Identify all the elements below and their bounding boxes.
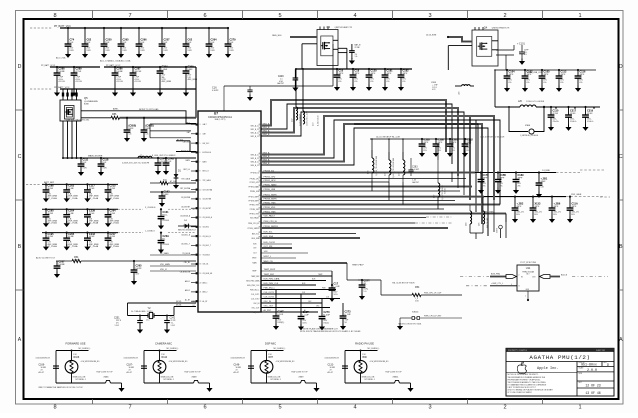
column ticks top	[92, 11, 94, 20]
svg-text:BUS_PMU_DATA: BUS_PMU_DATA	[264, 278, 280, 281]
svg-text:ANLL2: ANLL2	[185, 289, 190, 292]
capacitor C18	[352, 68, 354, 70]
wire corner connectors right-bottom	[451, 172, 453, 182]
capacitor C74	[67, 27, 69, 29]
capacitor C257	[161, 27, 163, 29]
capacitor C182	[400, 68, 402, 70]
svg-text:1UF: 1UF	[210, 42, 215, 44]
svg-text:X06T: X06T	[497, 227, 499, 233]
svg-text:1UF: 1UF	[163, 42, 168, 44]
wire drop to row1 bus	[499, 197, 501, 205]
svg-text:J0PF: J0PF	[516, 206, 522, 208]
svg-text:1UF: 1UF	[102, 162, 107, 164]
title block legal paragraph	[506, 372, 577, 374]
svg-text:J0PF: J0PF	[579, 74, 585, 76]
svg-text:MAIN_ON: MAIN_ON	[264, 260, 274, 263]
svg-text:TEMP: TEMP	[318, 274, 322, 276]
svg-text:VDD_IO: VDD_IO	[160, 269, 168, 271]
svg-text:1.5-R: 1.5-R	[171, 325, 176, 327]
svg-text:J0 NF: J0 NF	[89, 188, 95, 190]
svg-text:R106: R106	[74, 356, 80, 359]
svg-text:X5R: X5R	[102, 168, 107, 170]
svg-text:4T_J%4A: 4T_J%4A	[47, 197, 57, 200]
svg-text:TEMP_FB2: TEMP_FB2	[264, 274, 275, 276]
svg-text:1UF: 1UF	[105, 42, 110, 44]
svg-text:BUS_CLK32: BUS_CLK32	[264, 242, 276, 244]
svg-text:4NF_BNB: 4NF_BNB	[161, 81, 171, 83]
svg-text:PP1R0_VDD: PP1R0_VDD	[250, 209, 260, 211]
net PP5R0 bus from Q3	[295, 68, 412, 70]
svg-text:J%4.6-: J%4.6-	[552, 121, 559, 123]
mic block ground	[121, 386, 123, 389]
svg-text:R%: R%	[423, 150, 427, 152]
svg-text:1: 1	[578, 13, 581, 19]
svg-text:PP3R0_TRIS: PP3R0_TRIS	[249, 204, 260, 206]
svg-text:GA0TET: GA0TET	[277, 82, 285, 85]
second bus segment left	[50, 66, 100, 68]
svg-text:PP1R1_SMPS: PP1R1_SMPS	[249, 196, 261, 198]
svg-text:X5(1): X5(1)	[323, 322, 329, 324]
svg-text:BUS_SCL: BUS_SCL	[252, 233, 260, 235]
inductor L24	[469, 205, 471, 211]
svg-text:100NF: 100NF	[58, 71, 65, 73]
svg-text:MC_SGNDK_L: MC_SGNDK_L	[368, 348, 380, 350]
svg-text:CLK_OUT1: CLK_OUT1	[251, 294, 260, 296]
svg-text:CB_BGC: CB_BGC	[203, 227, 210, 229]
svg-text:CB_BGTBT: CB_BGTBT	[203, 208, 211, 210]
svg-text:B0BB: B0BB	[84, 104, 89, 106]
capacitor C12 BAT_B	[351, 44, 353, 51]
right cap row1 bus	[475, 172, 556, 174]
svg-text:BBT_LG: BBT_LG	[184, 169, 191, 171]
inductor L17	[437, 160, 439, 183]
svg-text:U7: U7	[214, 111, 218, 115]
svg-text:SW4_B_CU: SW4_B_CU	[250, 165, 260, 167]
svg-text:VDD_MAIN: VDD_MAIN	[160, 263, 170, 266]
capacitor C17	[331, 271, 333, 285]
svg-text:B0B (1 OF 2): B0B (1 OF 2)	[215, 119, 226, 121]
svg-text:CLK_OUT2: CLK_OUT2	[251, 298, 260, 300]
Apple logo	[517, 362, 526, 374]
svg-text:MT2 FB2B-L 5: MT2 FB2B-L 5	[365, 379, 375, 381]
capacitor C286	[114, 66, 116, 68]
net bus into Q5	[30, 88, 52, 90]
svg-text:X369: X369	[299, 377, 305, 379]
svg-text:1.8_BNB: 1.8_BNB	[542, 170, 550, 172]
capacitor C161	[160, 208, 162, 210]
svg-text:0.001/0603/X5R/6.3V: 0.001/0603/X5R/6.3V	[36, 358, 50, 360]
wire bundle U7 lower right	[261, 243, 292, 245]
capacitor C239	[86, 208, 88, 210]
capacitor C317	[567, 106, 569, 108]
capacitor C289	[73, 66, 75, 68]
svg-text:X5R: X5R	[140, 50, 145, 52]
svg-text:CB_BGTBT: CB_BGTBT	[181, 206, 190, 208]
svg-text:17: 17	[200, 254, 202, 256]
svg-text:0.30PF: 0.30PF	[212, 90, 219, 92]
capacitor 0.292	[464, 138, 466, 140]
svg-text:B: B	[619, 244, 623, 250]
wire long top band 2	[354, 120, 500, 205]
net PP_BATT dashed feed	[26, 183, 40, 185]
svg-text:J0 NF: J0 NF	[109, 188, 115, 190]
svg-text:PP1R8_IO2: PP1R8_IO2	[251, 172, 260, 174]
svg-text:0%: 0%	[560, 82, 563, 84]
svg-text:1UF: 1UF	[140, 42, 145, 44]
capacitor C120	[368, 68, 370, 70]
svg-text:1_CUGBLG: 1_CUGBLG	[145, 230, 155, 232]
svg-text:OSC_IN: OSC_IN	[253, 303, 260, 305]
cap-grid bus row 2	[42, 208, 118, 210]
svg-text:1.0NF: 1.0NF	[161, 69, 168, 71]
svg-text:2.2UH-LG-TL-LGE BNB: 2.2UH-LG-TL-LGE BNB	[526, 101, 545, 103]
svg-text:PP3R0_USB: PP3R0_USB	[264, 189, 276, 191]
svg-text:4T_J%4A: 4T_J%4A	[89, 245, 99, 248]
svg-text:SHT: SHT	[579, 382, 582, 384]
svg-text:+1/W_MICROPHONE_NO: +1/W_MICROPHONE_NO	[370, 361, 390, 363]
svg-text:J0PF: J0PF	[451, 142, 457, 144]
wire verticals inductor cluster connections	[371, 139, 373, 158]
svg-text:0%: 0%	[354, 81, 357, 83]
svg-text:BUS: BUS	[302, 283, 305, 285]
svg-text:BUS_PMU_CLK: BUS_PMU_CLK	[264, 283, 279, 285]
svg-text:PP3R1_TRIS: PP3R1_TRIS	[249, 213, 260, 215]
svg-text:OSC_OUT: OSC_OUT	[264, 306, 274, 308]
inductor L25	[482, 205, 484, 211]
svg-text:41.2-B: 41.2-B	[58, 81, 65, 83]
svg-text:A%-3T: A%-3T	[328, 371, 334, 374]
svg-text:J0PF: J0PF	[526, 74, 532, 76]
svg-text:ADJ_C74A ADJ_C82A ADJ_C50A: ADJ_C74A ADJ_C82A ADJ_C50A	[100, 60, 131, 63]
net OSC wires to U7	[128, 302, 197, 304]
Q4 output wires	[496, 49, 514, 51]
svg-text:X5R: X5R	[86, 50, 91, 52]
svg-text:AVBE_: AVBE_	[113, 108, 120, 111]
svg-text:4T_J%4A: 4T_J%4A	[47, 222, 57, 225]
svg-text:J0NF: J0NF	[540, 181, 546, 183]
inductor L10	[462, 85, 471, 86]
second bus segment mid	[104, 66, 196, 68]
inductor L14	[372, 158, 374, 173]
U7 left pin stubs	[191, 124, 198, 126]
svg-text:4T_J%4A: 4T_J%4A	[109, 197, 119, 200]
svg-text:B1.6-: B1.6-	[162, 215, 167, 217]
svg-text:J0PF: J0PF	[560, 74, 566, 76]
svg-text:SW3_A: SW3_A	[263, 152, 270, 155]
capacitor C299	[185, 66, 187, 68]
svg-text:MT2 FB2B-L 5: MT2 FB2B-L 5	[164, 379, 174, 381]
svg-text:1UF: 1UF	[167, 161, 172, 163]
svg-text:47 NF: 47 NF	[75, 71, 82, 73]
svg-text:OUT: OUT	[253, 248, 256, 250]
svg-text:B: B	[18, 244, 22, 250]
svg-text:8: 8	[53, 13, 56, 19]
svg-text:X3614: X3614	[412, 311, 419, 313]
svg-text:1202_GBLB: 1202_GBLB	[571, 194, 582, 196]
capacitor C98T	[300, 313, 302, 317]
svg-text:2: 2	[503, 405, 506, 411]
inductor L13	[303, 111, 305, 124]
mic block ground	[209, 386, 211, 389]
svg-text:U11: U11	[526, 266, 531, 270]
svg-text:TB_BGLB: TB_BGLB	[203, 254, 210, 256]
U11 ground	[527, 291, 529, 299]
svg-text:MT2 FB2B-L 5: MT2 FB2B-L 5	[76, 379, 86, 381]
svg-text:B90: B90	[363, 356, 368, 359]
svg-text:12 OF 23: 12 OF 23	[585, 384, 600, 388]
capacitor C11A	[569, 196, 571, 198]
capacitor C202	[66, 183, 68, 185]
svg-text:X_CUGBLGL: X_CUGBLGL	[145, 207, 156, 209]
svg-text:12: 12	[200, 208, 202, 210]
svg-text:PP1R2_CPU: PP1R2_CPU	[250, 178, 260, 180]
svg-text:SW4_A: SW4_A	[263, 159, 270, 162]
capacitor C1B5	[497, 171, 499, 173]
capacitor C117	[86, 183, 88, 185]
capacitor C265b	[133, 260, 135, 262]
svg-text:(BCM): (BCM)	[176, 304, 182, 306]
svg-text:X068: X068	[192, 377, 198, 379]
svg-text:I REF TO MEAN THE SAMPLES OF: I REF TO MEAN THE SAMPLES OF SC BU CU-TU…	[38, 386, 83, 389]
mic block wires	[144, 350, 177, 352]
wire bundle staircase U7 to top-right	[261, 100, 446, 152]
svg-text:14-5.10 NTUBTJF WL_CUR: 14-5.10 NTUBTJF WL_CUR	[376, 137, 400, 139]
svg-text:X5R: X5R	[122, 50, 127, 52]
svg-text:OSC_IN: OSC_IN	[264, 301, 272, 303]
svg-text:ITEM_CPU_KL: ITEM_CPU_KL	[264, 221, 279, 223]
svg-text:J0PF: J0PF	[423, 142, 429, 144]
svg-text:J0PF: J0PF	[402, 73, 408, 75]
svg-text:0.001/0603/X5R/6.3V: 0.001/0603/X5R/6.3V	[124, 358, 138, 360]
svg-text:CB_BGL_B: CB_BGL_B	[203, 236, 211, 238]
svg-text:J0PF: J0PF	[482, 178, 488, 180]
svg-text:J0 NF: J0 NF	[109, 213, 115, 215]
svg-text:BU2_B: BU2_B	[561, 274, 568, 276]
capacitor C66B small	[143, 117, 145, 119]
svg-text:1.6-: 1.6-	[355, 56, 358, 58]
svg-text:PP3R0_NAND: PP3R0_NAND	[264, 184, 278, 187]
mic block wires	[345, 350, 378, 352]
svg-text:RADIO PA USE: RADIO PA USE	[355, 341, 374, 345]
net dash row2 to IC	[118, 208, 143, 210]
wire AT_B0L to U7 pin	[176, 151, 196, 153]
capacitor C162	[150, 191, 196, 193]
svg-text:BUS_PMU_CLK: BUS_PMU_CLK	[247, 285, 260, 287]
svg-text:J2 NF: J2 NF	[570, 113, 576, 115]
capacitor 0.281	[538, 171, 540, 173]
capacitor C207	[56, 260, 68, 262]
svg-text:+1/W_MICROPHONE_NO: +1/W_MICROPHONE_NO	[169, 361, 189, 363]
svg-text:PMU_IRQ_L: PMU_IRQ_L	[250, 289, 259, 291]
wire drops to bottom caps	[275, 290, 277, 314]
svg-text:1.B: 1.B	[540, 187, 544, 189]
svg-text:J0 NF: J0 NF	[68, 213, 74, 215]
capacitor C62	[185, 27, 187, 29]
capacitor C264	[208, 27, 210, 29]
svg-text:J0PF: J0PF	[534, 206, 540, 208]
net dash row3 to IC	[118, 232, 143, 234]
svg-text:A%-3T: A%-3T	[127, 371, 133, 374]
svg-text:PP1R0_SMPS3: PP1R0_SMPS3	[248, 228, 260, 230]
svg-text:7: 7	[128, 13, 131, 19]
svg-text:J0PF: J0PF	[354, 73, 360, 75]
capacitor C111	[80, 157, 82, 159]
svg-text:1UF: 1UF	[86, 42, 91, 44]
title text AGATHA PMU	[506, 350, 614, 352]
svg-text:AGATHA PMU(1/2): AGATHA PMU(1/2)	[529, 354, 590, 361]
svg-text:PP1R2_GPU: PP1R2_GPU	[250, 182, 260, 184]
mid cap row bus	[370, 138, 470, 140]
svg-text:B1.: B1.	[162, 239, 166, 241]
svg-text:X3615: X3615	[445, 187, 447, 194]
svg-text:J0PF: J0PF	[571, 206, 577, 208]
svg-text:SW3_B: SW3_B	[263, 156, 270, 158]
svg-text:A_0UF: A_0UF	[323, 314, 330, 317]
svg-text:TB_BGLB: TB_BGLB	[182, 253, 190, 255]
svg-text:BBT_LG: BBT_LG	[203, 171, 210, 173]
svg-text:NOTE: ROUTE TRACES BEFORE LAY: NOTE: ROUTE TRACES BEFORE LAY UR PLS TS …	[300, 330, 361, 333]
svg-text:ADJ_C74A: ADJ_C74A	[56, 57, 66, 60]
transistor Q3	[317, 30, 338, 66]
capacitor C82	[84, 27, 86, 29]
capacitor C243	[86, 232, 88, 234]
capacitor C118	[100, 157, 102, 159]
svg-text:B%: B%	[553, 214, 556, 216]
svg-text:PP1R8_SMPS: PP1R8_SMPS	[249, 200, 261, 202]
svg-text:LOW_BGL_NBLGR/TB_GBL: LOW_BGL_NBLGR/TB_GBL	[66, 120, 89, 122]
capacitor C319	[584, 106, 586, 108]
svg-text:10: 10	[200, 189, 202, 191]
svg-text:PDN_CPU_LF_CUF: PDN_CPU_LF_CUF	[424, 293, 442, 295]
svg-text:4: 4	[353, 13, 356, 19]
svg-text:4.23: 4.23	[432, 89, 435, 91]
svg-text:J0 NF: J0 NF	[68, 236, 74, 238]
capacitor C287	[132, 66, 134, 68]
row ticks right	[619, 109, 624, 111]
capacitor C190	[45, 208, 47, 210]
wire drops from mid bundle	[487, 196, 489, 237]
svg-text:8: 8	[53, 405, 56, 411]
svg-text:16: 16	[200, 245, 202, 247]
svg-text:10NF: 10NF	[187, 69, 193, 71]
svg-text:GAT: GAT	[187, 131, 190, 134]
svg-text:5: 5	[278, 13, 281, 19]
svg-text:BUS: BUS	[312, 279, 315, 281]
svg-text:1_0UH_LNTLL_LGND: 1_0UH_LNTLL_LGND	[307, 110, 309, 126]
svg-text:1UF: 1UF	[122, 42, 127, 44]
svg-text:VDD_FAULT: VDD_FAULT	[264, 215, 276, 218]
svg-text:J0PF: J0PF	[370, 73, 376, 75]
svg-text:R110: R110	[162, 356, 168, 359]
svg-text:BUS_SCL: BUS_SCL	[264, 232, 274, 234]
net PP_BATT_VCC top bus	[30, 27, 52, 29]
svg-text:CLK_OUT2: CLK_OUT2	[264, 297, 275, 299]
capacitor C217	[107, 232, 109, 234]
svg-text:0.1UF: 0.1UF	[277, 314, 284, 316]
svg-text:X5R: X5R	[163, 50, 168, 52]
op-amp U7 main PMU IC body	[198, 111, 261, 312]
U7 left top wires	[150, 123, 191, 125]
capacitor C195	[45, 232, 47, 234]
wire long top band 3	[354, 124, 478, 173]
capacitor 0.291	[449, 138, 451, 140]
svg-text:PP3R1_TRIS: PP3R1_TRIS	[264, 212, 277, 214]
net dashes to U11	[460, 276, 489, 278]
svg-text:C: C	[619, 154, 623, 160]
capacitor 0.285	[421, 138, 423, 140]
svg-text:C: C	[18, 154, 22, 160]
svg-text:SW2_A: SW2_A	[263, 130, 270, 133]
svg-text:0%: 0%	[402, 81, 405, 83]
column ticks bottom	[92, 399, 94, 404]
svg-text:X5R: X5R	[187, 50, 192, 52]
capacitor C204	[66, 208, 68, 210]
svg-text:X360: X360	[525, 125, 531, 127]
staircase inductor feed verticals	[295, 69, 297, 107]
svg-text:D: D	[619, 64, 623, 70]
svg-text:1_0UH-B_TRL-LEGEND BNB: 1_0UH-B_TRL-LEGEND BNB	[393, 158, 395, 178]
svg-text:NRST_L: NRST_L	[264, 256, 273, 258]
capacitor C112	[558, 69, 560, 71]
svg-text:41.B-B: 41.B-B	[162, 244, 169, 246]
svg-text:1A55_E00: 1A55_E00	[272, 34, 282, 37]
capacitor C264	[107, 208, 109, 210]
svg-text:10%: 10%	[302, 322, 306, 324]
svg-text:BUS_PMU: BUS_PMU	[491, 274, 501, 276]
svg-text:C3: C3	[193, 301, 195, 303]
thick bus right segment	[505, 214, 507, 223]
transistor Q4	[472, 30, 498, 66]
capacitor X133	[532, 196, 534, 198]
svg-text:CB_BGB_GB: CB_BGB_GB	[180, 272, 191, 274]
svg-text:SW2_B_CU: SW2_B_CU	[250, 136, 260, 138]
svg-text:14: 14	[200, 227, 202, 229]
svg-text:1_0UF: 1_0UF	[333, 286, 340, 288]
svg-text:5: 5	[278, 405, 281, 411]
svg-text:20: 20	[200, 282, 202, 284]
svg-text:1UF: 1UF	[187, 42, 192, 44]
capacitor C148b	[165, 157, 167, 159]
capacitor C250	[103, 27, 105, 29]
svg-text:Q4: Q4	[484, 26, 488, 30]
svg-text:0%: 0%	[579, 82, 582, 84]
junction dots on buses	[494, 69, 496, 71]
capacitor C105	[541, 69, 543, 71]
svg-text:0%: 0%	[338, 81, 341, 83]
svg-text:1_0UF: 1_0UF	[302, 315, 309, 317]
svg-text:SW2_B: SW2_B	[263, 134, 270, 136]
capacitor C23A	[160, 232, 162, 234]
svg-text:4%: 4%	[517, 185, 520, 187]
svg-text:0%: 0%	[543, 82, 546, 84]
capacitor C265	[120, 27, 122, 29]
svg-text:21: 21	[200, 292, 202, 294]
title block outer	[506, 348, 614, 396]
capacitor +.2B2	[514, 196, 516, 198]
svg-text:CB_BGL_B: CB_BGL_B	[181, 234, 191, 236]
svg-text:MC_SGNDK_L: MC_SGNDK_L	[274, 348, 286, 350]
svg-text:SW1_B_CU: SW1_B_CU	[250, 129, 260, 131]
svg-text:D: D	[607, 364, 609, 368]
svg-text:6: 6	[203, 13, 206, 19]
svg-text:X5R: X5R	[210, 50, 215, 52]
svg-text:J0 NF: J0 NF	[89, 213, 95, 215]
svg-text:11: 11	[200, 199, 202, 201]
wire long top band 1	[354, 116, 494, 200]
dash bus right row1	[580, 169, 604, 171]
capacitor C273	[342, 313, 344, 316]
svg-text:J0PF: J0PF	[386, 73, 392, 75]
